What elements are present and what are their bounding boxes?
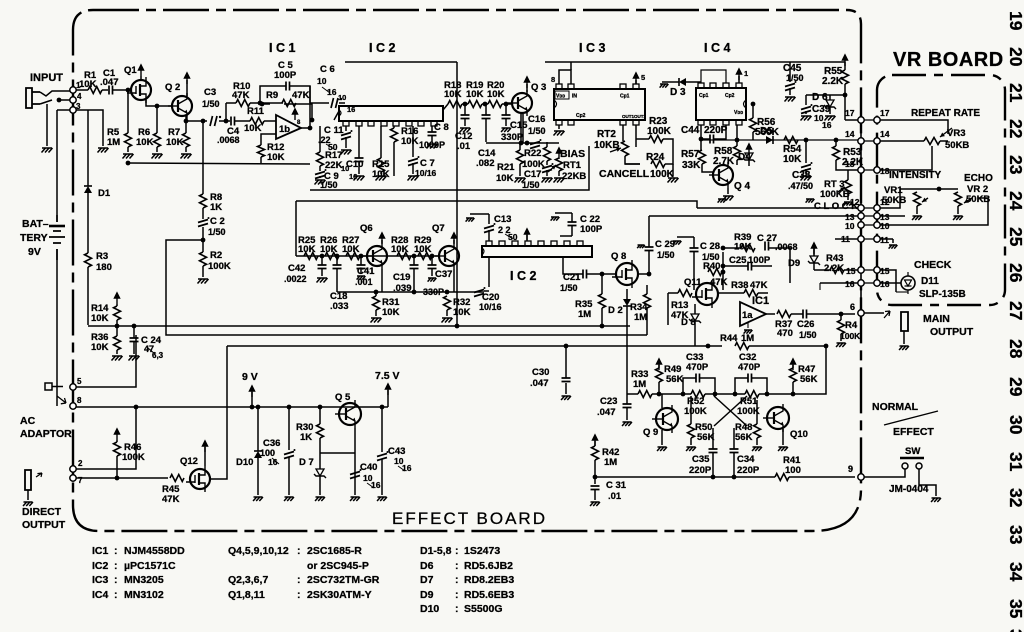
wire C31 gnd (594, 490, 596, 500)
label INTENSITY (889, 170, 942, 181)
wire D8 (694, 304, 696, 346)
node pin 11 vr side (874, 236, 880, 242)
node 1 (70, 81, 81, 93)
wire C5 loop (260, 86, 310, 103)
capacitor C30 (530, 367, 571, 389)
wire node9-sw (864, 469, 905, 477)
arrow Q12 gate (202, 440, 208, 452)
wire rail x166 down (166, 326, 296, 335)
pin label 13 left (845, 212, 855, 222)
page number 34 (1006, 562, 1024, 582)
wire pin 11 link (861, 238, 877, 240)
label CLOCK (814, 201, 858, 212)
wire vr3 right (940, 140, 948, 142)
svg-text:2: 2 (78, 459, 83, 468)
label DIRECT OUTPUT (22, 506, 66, 531)
wire R49 (657, 365, 662, 396)
wire input gnd drop (46, 104, 48, 146)
wire C44 (701, 125, 726, 139)
capacitor C12 (455, 115, 472, 152)
svg-text:100K: 100K (647, 126, 672, 137)
node pin 11 effect side (858, 236, 864, 242)
wire R35 (600, 274, 605, 328)
svg-text:Q 4: Q 4 (734, 181, 751, 192)
resistor R41 (775, 455, 801, 481)
svg-text:24: 24 (1006, 191, 1024, 211)
svg-text:D 2: D 2 (608, 305, 623, 316)
ground pin11 (889, 245, 898, 249)
svg-text:C 2: C 2 (210, 216, 225, 227)
node 4 (70, 92, 82, 103)
node pin 13 effect side (858, 213, 864, 219)
svg-text:7.5 V: 7.5 V (375, 370, 400, 382)
wire C28 (673, 237, 694, 290)
ground D7 (315, 497, 325, 501)
svg-text:10K: 10K (91, 342, 109, 353)
wire pin 12 link (861, 207, 877, 209)
wire C2-R2 (201, 227, 206, 252)
svg-text:D11: D11 (921, 276, 939, 287)
svg-text:ADAPTOR: ADAPTOR (20, 428, 72, 440)
svg-text:IC3: IC3 (92, 574, 109, 586)
resistor R56 (750, 117, 780, 138)
wire C39 (801, 93, 848, 121)
svg-text:1S2473: 1S2473 (464, 545, 500, 557)
wire R53 (834, 138, 861, 170)
capacitor C18 (330, 265, 349, 312)
wire R42 (593, 441, 598, 484)
VR board outline (877, 75, 1005, 305)
ground direct out (23, 502, 33, 506)
page number 26 (1006, 263, 1024, 283)
svg-text:100K: 100K (840, 331, 861, 341)
transistor Q1 (124, 65, 151, 103)
pin label 16 right (880, 279, 890, 289)
svg-text:C16: C16 (528, 114, 545, 125)
page number 29 (1006, 377, 1024, 397)
label BIAS (560, 148, 585, 160)
wire long vert x457 (345, 62, 459, 328)
capacitor C2 (198, 216, 226, 237)
wire Q2 emitter (184, 115, 207, 123)
transistor Q4 (709, 162, 751, 192)
capacitor C7 (408, 156, 437, 178)
wire long rail y326 (88, 325, 630, 327)
svg-text:S5500G: S5500G (464, 603, 503, 615)
wire C1-Q1 (113, 89, 131, 91)
page number 22 (1006, 119, 1024, 139)
IC4 chip body (696, 83, 746, 125)
capacitor C19 (393, 265, 419, 294)
resistor R48 (735, 422, 761, 443)
svg-text:D7: D7 (420, 574, 434, 586)
arrow R47 (790, 358, 796, 370)
arrow 7.5V (385, 383, 391, 395)
transistor Q9 (643, 405, 678, 438)
svg-text:180: 180 (96, 262, 112, 273)
wire VR2 gnd (957, 206, 959, 214)
wire node3 run (76, 110, 103, 146)
resistor R13 (671, 290, 692, 322)
svg-text:22: 22 (1006, 119, 1024, 139)
page number 19 (1006, 11, 1024, 31)
svg-text:BAT–: BAT– (22, 218, 49, 230)
capacitor C28 (690, 241, 721, 262)
label SW (905, 446, 920, 457)
svg-text:16: 16 (402, 463, 412, 473)
svg-text:14: 14 (845, 129, 855, 139)
LED D11 (901, 272, 966, 300)
svg-text:Cp2: Cp2 (725, 93, 735, 99)
resistor R34 (630, 294, 651, 323)
capacitor C15 (501, 115, 528, 143)
svg-text:R38: R38 (731, 280, 748, 291)
svg-text:EFFECT: EFFECT (893, 426, 934, 438)
wire sw gnd (919, 469, 936, 496)
wire D7 gnd (319, 476, 321, 495)
svg-text:I C 4: I C 4 (704, 41, 730, 55)
wire Q5 base tap (320, 452, 355, 454)
ground C12 (460, 128, 471, 133)
svg-text:9 V: 9 V (242, 371, 258, 383)
resistor R18 (444, 80, 462, 108)
svg-text::: : (114, 545, 118, 557)
wire C3-C4 (219, 119, 230, 124)
wire R8-C2 (202, 208, 204, 219)
wire C35 (711, 428, 716, 479)
svg-text:330P: 330P (423, 287, 444, 297)
wire Q6 emitter (381, 269, 383, 292)
ground R5 (123, 154, 134, 159)
svg-text:.082: .082 (476, 158, 495, 169)
wire clock out rail (697, 207, 861, 209)
capacitor C36 (260, 438, 296, 467)
label CHECK (914, 259, 952, 271)
svg-text:16: 16 (880, 279, 890, 289)
wire R14 (115, 304, 120, 336)
potentiometer VR2 (955, 192, 973, 206)
svg-text:RD5.6EB3: RD5.6EB3 (464, 589, 514, 601)
page number 3 (1006, 629, 1024, 632)
svg-text:10K: 10K (414, 244, 432, 255)
pin label 10 right (880, 221, 890, 231)
svg-text:R3: R3 (96, 251, 108, 262)
ground SW (931, 498, 941, 502)
svg-text:47K: 47K (232, 90, 250, 101)
resistor R46 (114, 442, 145, 463)
svg-text:1/50: 1/50 (522, 180, 540, 190)
arrow IC3 vdd (633, 72, 645, 84)
svg-text:10: 10 (317, 76, 327, 86)
transistor Q5 (335, 392, 361, 428)
diode D2 (608, 299, 631, 316)
svg-text:NORMAL: NORMAL (872, 401, 919, 413)
wire battery bottom (56, 260, 58, 406)
IC3 chip body (554, 84, 646, 125)
resistor R57 (681, 149, 706, 171)
svg-text:IC2: IC2 (92, 560, 109, 572)
svg-text:56K: 56K (800, 374, 818, 385)
page number 24 (1006, 191, 1024, 211)
capacitor C38 (788, 162, 813, 191)
wire R2 gnd (202, 266, 204, 277)
node pin 14 effect side (858, 138, 864, 144)
diode D1 (84, 186, 111, 199)
svg-text:C 8: C 8 (434, 122, 449, 133)
svg-text::: : (455, 589, 459, 601)
capacitor C26 (797, 310, 817, 341)
wire R44 rail (749, 344, 828, 349)
svg-text:21: 21 (1006, 83, 1024, 103)
IC2b chip body (482, 241, 592, 257)
svg-text:JM-0404: JM-0404 (889, 484, 929, 495)
svg-text::: : (455, 560, 459, 572)
ground C7 (408, 176, 419, 181)
svg-text:100P: 100P (748, 255, 771, 266)
label R39 value (734, 242, 752, 253)
svg-text:29: 29 (1006, 377, 1024, 397)
svg-text:17: 17 (845, 108, 855, 118)
capacitor C13 (484, 214, 518, 242)
svg-text:15: 15 (846, 266, 856, 276)
svg-text:Q 5: Q 5 (335, 392, 351, 403)
wire main rail (76, 406, 388, 408)
resistor R27 (342, 235, 360, 260)
svg-text:VR3: VR3 (947, 128, 965, 139)
wire node9 row (595, 476, 855, 478)
svg-text:50KB: 50KB (882, 195, 906, 206)
page number 32 (1006, 488, 1024, 508)
svg-text:Vᴅᴅ: Vᴅᴅ (734, 110, 743, 116)
wire Q7 emitter (423, 269, 454, 297)
wire C32 loop (733, 378, 770, 396)
svg-text:17: 17 (880, 108, 890, 118)
page number 27 (1006, 301, 1024, 320)
svg-text:I C 1: I C 1 (269, 41, 295, 55)
wire C24 (132, 324, 137, 354)
ground C36 (284, 497, 294, 501)
svg-text:10K: 10K (79, 79, 97, 90)
wire R36 gnd (116, 350, 118, 354)
svg-text:10K: 10K (466, 89, 484, 100)
capacitor C1 (100, 68, 119, 95)
op-amp 1b (276, 108, 301, 139)
ground C9 (315, 180, 326, 185)
svg-text:Q7: Q7 (432, 223, 445, 234)
svg-text:R22: R22 (524, 148, 541, 159)
node pin 12 vr side (874, 205, 880, 211)
potentiometer RT2 (594, 129, 629, 156)
wire clock row (702, 139, 862, 141)
svg-text:10K: 10K (342, 244, 360, 255)
svg-text:R4: R4 (845, 320, 858, 331)
wire Q12 gate up (204, 447, 206, 466)
wire C10 (358, 126, 360, 174)
svg-text:470P: 470P (738, 362, 761, 373)
wire IC3 top rail (559, 62, 571, 84)
resistor R20 (487, 80, 505, 108)
svg-text:8: 8 (77, 396, 82, 405)
ground main output (899, 346, 909, 350)
resistor R38 (731, 280, 768, 297)
wire C43 (380, 405, 385, 495)
node pin 18 effect side (858, 167, 864, 173)
svg-text:10K: 10K (391, 244, 409, 255)
ground C43 (377, 497, 387, 501)
wire 7.5V stub (387, 390, 389, 407)
wire Q5 emitter (354, 428, 356, 495)
wire vr12 top (880, 187, 958, 208)
wire C4-R11 (235, 120, 250, 122)
svg-text:5: 5 (641, 73, 645, 82)
resistor R42 (592, 446, 620, 468)
svg-text:10K: 10K (783, 154, 802, 165)
wire R40 (721, 246, 726, 290)
wire opamp out (766, 313, 775, 315)
ground C17 (542, 178, 553, 183)
svg-text:D9: D9 (420, 589, 434, 601)
svg-text:C15: C15 (510, 120, 528, 131)
capacitor C14 (476, 115, 496, 169)
ground R15 (376, 176, 387, 181)
wire battery top (57, 110, 70, 215)
svg-text:1/50: 1/50 (657, 250, 675, 260)
ground R50 (686, 447, 696, 451)
wire vr3 wiper (880, 146, 932, 170)
label CANCELL (599, 168, 650, 180)
node pin 12 effect side (858, 205, 864, 211)
arrow R46 (114, 428, 120, 440)
wire R7 leads (185, 121, 187, 152)
svg-text:Q 2: Q 2 (165, 82, 180, 93)
svg-text:BIAS: BIAS (560, 148, 585, 160)
svg-text:56K: 56K (735, 432, 753, 443)
svg-text:50KB: 50KB (945, 140, 969, 151)
svg-text:10K: 10K (166, 137, 184, 148)
label NORMAL (872, 401, 919, 413)
wire R50 (690, 396, 692, 445)
wire R38 (718, 292, 768, 294)
wire R9 right (260, 102, 315, 123)
arrow 9V (249, 385, 255, 397)
svg-text:D5: D5 (760, 126, 773, 137)
svg-text:IN: IN (572, 94, 577, 100)
wire pin11 gnd stub (835, 238, 861, 240)
resistor R53 (833, 146, 864, 168)
wire C15 (501, 102, 511, 132)
svg-text:31: 31 (1006, 452, 1024, 472)
svg-text:1M: 1M (634, 312, 647, 323)
ground node3 (98, 148, 109, 153)
capacitor C16 (528, 114, 546, 149)
svg-text:.047: .047 (597, 407, 616, 418)
svg-text:C37: C37 (435, 269, 452, 280)
label VR2 (966, 184, 990, 205)
svg-text::: : (455, 574, 459, 586)
wire lfo row1 (659, 393, 745, 395)
transistor Q12 (180, 456, 210, 492)
wire C11 (345, 126, 347, 148)
capacitor C42 (284, 263, 327, 284)
wire input tip (40, 91, 70, 96)
node pin 10 vr side (874, 222, 880, 228)
svg-text:.0068: .0068 (217, 135, 240, 145)
svg-text:220P: 220P (689, 465, 712, 476)
wire node5 (76, 335, 136, 387)
svg-text:16: 16 (347, 105, 355, 114)
wire R13 (668, 293, 678, 325)
svg-text:Q11: Q11 (684, 277, 702, 288)
wire C18 (335, 254, 340, 292)
transistor Q3 (508, 82, 546, 116)
svg-text:10K: 10K (444, 89, 462, 100)
wire R17 (319, 126, 321, 171)
svg-text:CANCELL: CANCELL (599, 168, 650, 180)
svg-text:INPUT: INPUT (30, 72, 63, 84)
ground C23 (622, 422, 632, 426)
ground C24 (129, 356, 140, 361)
svg-text:10K: 10K (244, 123, 262, 134)
wire R19R20 (482, 102, 488, 107)
wire main out gnd (903, 331, 905, 344)
svg-text:16: 16 (371, 480, 381, 490)
ground C31 (590, 502, 600, 506)
wire C22 (551, 213, 572, 236)
node pin 15 vr side (874, 267, 880, 273)
svg-text:10: 10 (880, 221, 890, 231)
svg-text:.047: .047 (530, 378, 549, 389)
wire C7 (412, 126, 414, 174)
capacitor C11 (318, 125, 353, 152)
svg-text:AC: AC (20, 415, 36, 427)
arrow Q7 (451, 232, 457, 244)
svg-text:1: 1 (744, 69, 748, 78)
op-amp 1a (740, 295, 769, 326)
svg-text:OUTPUT: OUTPUT (22, 519, 66, 531)
potentiometer RT1 (548, 158, 586, 182)
svg-text:1/50: 1/50 (528, 126, 546, 136)
svg-text:RD5.6JB2: RD5.6JB2 (464, 560, 513, 572)
wire C29 (637, 216, 649, 274)
svg-text:DIRECT: DIRECT (22, 506, 62, 518)
svg-text:D1: D1 (98, 188, 111, 199)
capacitor C8 (419, 122, 449, 150)
svg-text:10: 10 (845, 221, 855, 231)
svg-text::: : (297, 589, 301, 601)
svg-text:R11: R11 (247, 106, 265, 117)
arrow node8 (57, 396, 66, 404)
wire pin 15 link (861, 269, 877, 271)
wire C8 (431, 126, 433, 142)
wire rail y218 (649, 215, 861, 217)
wire pin15 loop (880, 270, 896, 292)
ground R2 (198, 279, 209, 284)
capacitor C21 (560, 270, 587, 294)
wire R55 (842, 54, 861, 120)
wire R1 run (76, 89, 88, 91)
node 9 (848, 464, 864, 480)
svg-text::: : (114, 560, 118, 572)
svg-text:2SC1685-R: 2SC1685-R (307, 545, 362, 557)
wire chip-R18 (443, 104, 448, 110)
ground C8 (427, 144, 438, 149)
wire Q9 emitter (661, 430, 663, 445)
resistor R26 (320, 235, 339, 260)
wire R5 leads (126, 88, 131, 166)
svg-text:2.2K: 2.2K (822, 76, 844, 87)
label JM-0404 (889, 484, 929, 495)
wire opamp 1a gnd (744, 322, 753, 334)
